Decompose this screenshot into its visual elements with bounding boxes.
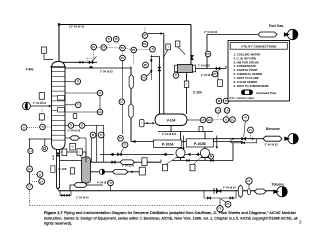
svg-text:Figure 1.7 Piping and Instru: Figure 1.7 Piping and Instrumentation Di… <box>44 210 297 215</box>
svg-text:Instruction, Series G: Design: Instruction, Series G: Design of Equipme… <box>44 217 298 221</box>
svg-text:12" 04-16 16: 12" 04-16 16 <box>69 25 85 29</box>
svg-text:FC: FC <box>92 46 95 49</box>
svg-text:FC: FC <box>119 137 122 140</box>
svg-text:V-104: V-104 <box>167 119 176 123</box>
svg-text:PI: PI <box>115 38 118 41</box>
svg-text:TI: TI <box>41 126 43 129</box>
svg-text:FI: FI <box>249 129 251 132</box>
svg-text:CS = carbon steel: CS = carbon steel <box>230 96 255 100</box>
svg-text:TI: TI <box>108 38 110 41</box>
svg-text:2" 04-16 02: 2" 04-16 02 <box>265 144 279 147</box>
svg-text:2" 04-16 03: 2" 04-16 03 <box>100 71 113 74</box>
svg-text:2" 04-16 03: 2" 04-16 03 <box>223 187 236 190</box>
svg-text:Insulated Pipe: Insulated Pipe <box>256 91 277 95</box>
svg-text:PI: PI <box>92 134 95 137</box>
svg-text:LI: LI <box>29 150 31 153</box>
svg-text:TI: TI <box>151 48 153 51</box>
svg-text:TI: TI <box>77 80 79 83</box>
svg-text:C-104: C-104 <box>193 91 202 95</box>
svg-text:2" 04-16 01: 2" 04-16 01 <box>33 102 47 105</box>
svg-text:3" 04-16 05: 3" 04-16 05 <box>122 164 135 167</box>
svg-text:PI: PI <box>218 100 221 103</box>
svg-text:TI: TI <box>77 104 79 107</box>
svg-text:Toluene: Toluene <box>272 183 285 187</box>
svg-text:FC: FC <box>142 76 145 79</box>
svg-text:PI: PI <box>210 155 213 158</box>
svg-text:H: H <box>72 145 74 149</box>
svg-text:TI: TI <box>100 134 102 137</box>
svg-text:2" 04-16 02: 2" 04-16 02 <box>198 65 211 68</box>
svg-text:2" 04-16 02: 2" 04-16 02 <box>204 31 218 34</box>
svg-text:LC: LC <box>120 101 123 104</box>
svg-text:TI: TI <box>81 124 83 127</box>
svg-text:LC: LC <box>28 168 31 171</box>
svg-text:LG: LG <box>98 111 101 114</box>
svg-text:TI: TI <box>225 100 227 103</box>
svg-text:UTILITY CONNECTIONS: UTILITY CONNECTIONS <box>241 45 276 49</box>
svg-text:TI: TI <box>70 124 72 127</box>
svg-text:TI: TI <box>175 74 177 77</box>
svg-text:LA: LA <box>216 109 219 112</box>
svg-text:9. VENT TO ATMOSPHERE: 9. VENT TO ATMOSPHERE <box>234 84 270 88</box>
svg-text:LC: LC <box>208 119 211 122</box>
svg-text:PC: PC <box>143 43 147 46</box>
svg-text:FC: FC <box>121 57 124 60</box>
svg-text:LA: LA <box>40 180 43 183</box>
svg-text:PI: PI <box>244 117 247 120</box>
svg-text:Fuel Gas: Fuel Gas <box>269 24 283 28</box>
svg-text:P-102B: P-102B <box>194 142 206 146</box>
svg-text:PT: PT <box>213 73 217 76</box>
svg-text:LC: LC <box>231 119 234 122</box>
svg-text:TC: TC <box>121 47 124 50</box>
svg-text:TI: TI <box>109 182 111 185</box>
svg-text:2" 04-16 03: 2" 04-16 03 <box>68 129 81 132</box>
svg-text:PC: PC <box>132 49 136 52</box>
svg-text:E-106: E-106 <box>59 167 67 171</box>
svg-text:TC: TC <box>123 144 126 147</box>
svg-text:PT: PT <box>143 34 147 37</box>
svg-text:2" 04-16 03: 2" 04-16 03 <box>76 197 89 200</box>
svg-text:2" 04-16 02A: 2" 04-16 02A <box>162 133 177 136</box>
svg-text:P-102A: P-102A <box>162 143 174 147</box>
svg-text:PC: PC <box>144 64 148 67</box>
svg-text:LI: LI <box>225 119 227 122</box>
svg-text:PC: PC <box>206 53 210 56</box>
svg-text:rights reserved).: rights reserved). <box>44 221 72 226</box>
svg-text:LI: LI <box>39 173 41 176</box>
svg-text:Benzene: Benzene <box>266 127 280 131</box>
svg-text:T-401: T-401 <box>26 68 34 72</box>
svg-text:LI: LI <box>23 126 25 129</box>
svg-text:LA: LA <box>225 109 228 112</box>
